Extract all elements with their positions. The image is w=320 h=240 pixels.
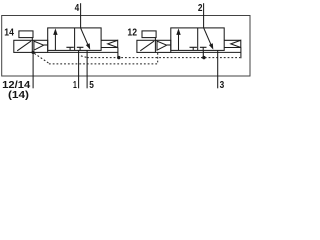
junction dot A xyxy=(117,56,120,59)
pilot return triangle V1 xyxy=(108,40,118,47)
valve V1 exhaust diagonal arrow xyxy=(81,28,88,45)
solenoid coil Y1 (left) xyxy=(19,31,33,38)
solenoid coil Y2 (right) xyxy=(142,31,156,38)
pilot return line V1 bottom xyxy=(101,47,118,49)
pilot line riser to V2 (dashed) xyxy=(157,53,159,64)
port 5 line xyxy=(86,50,88,88)
pilot line 12/14 branch diagonal (dashed) xyxy=(34,53,49,63)
pilot return stub V2 xyxy=(240,48,242,59)
svg-text:1: 1 xyxy=(73,80,77,91)
valve body V2 xyxy=(171,28,224,51)
manifold frame xyxy=(2,16,250,77)
pilot return stub V1 xyxy=(117,48,119,58)
pilot amplifier triangle V1 xyxy=(34,41,44,50)
pilot line lower horizontal (dashed) xyxy=(49,63,158,65)
valve V1 flow arrow up xyxy=(54,34,56,51)
port 12/14 line xyxy=(32,52,34,88)
pilot line upper horizontal (dashed) xyxy=(87,57,240,59)
valve V2 supply drop to pilot line xyxy=(202,50,204,57)
valve V2 blocked port T (left) xyxy=(190,47,197,50)
pilot-to-body wire V1 xyxy=(44,44,48,46)
valve V1 blocked port T (right) xyxy=(77,47,84,50)
port 1 line xyxy=(78,50,80,88)
pilot valve box V2 xyxy=(137,40,171,52)
pilot return line V2 top xyxy=(224,39,241,41)
pilot supply rail V1 xyxy=(48,51,118,53)
svg-text:5: 5 xyxy=(89,80,94,91)
junction dot B xyxy=(202,56,205,59)
junction dot 12/14 xyxy=(31,51,34,54)
svg-text:12: 12 xyxy=(127,27,137,38)
port 2 line xyxy=(203,3,205,28)
pilot return line V2 bottom xyxy=(224,47,241,49)
pilot line upper start diagonal (dashed) xyxy=(81,56,87,58)
valve V2 exhaust diagonal arrow xyxy=(204,28,211,45)
svg-text:(14): (14) xyxy=(8,90,29,101)
svg-text:2: 2 xyxy=(198,3,203,14)
port 4 line xyxy=(80,3,82,28)
solenoid diagonal V1 xyxy=(17,41,31,51)
pilot return triangle V2 xyxy=(231,40,241,47)
coil Y2 drop wire xyxy=(154,38,156,53)
valve V2 position separator xyxy=(197,28,199,51)
svg-text:4: 4 xyxy=(75,3,80,14)
pilot-to-body wire V2 xyxy=(167,44,171,46)
valve V1 position separator xyxy=(74,28,76,51)
pilot valve box V1 xyxy=(14,40,48,52)
coil Y1 drop wire xyxy=(31,38,33,53)
valve V2 flow arrow up xyxy=(178,34,180,51)
solenoid diagonal V2 xyxy=(140,41,154,51)
valve V2 blocked port T (right) xyxy=(200,47,207,50)
pilot supply rail V2 xyxy=(171,51,241,53)
port 3 line xyxy=(217,50,219,88)
pilot return line V1 top xyxy=(101,39,118,41)
valve body V1 xyxy=(48,28,101,51)
valve V1 blocked port T (left) xyxy=(66,47,73,50)
svg-text:14: 14 xyxy=(4,27,14,38)
pilot amplifier triangle V2 xyxy=(157,41,167,50)
svg-text:3: 3 xyxy=(220,80,225,91)
